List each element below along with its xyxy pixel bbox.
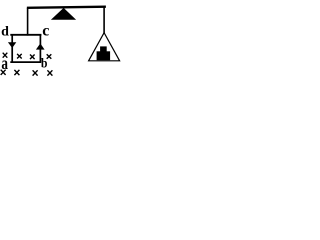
weight base block (97, 51, 111, 60)
wire: left drop from beam to bracket (27, 8, 29, 36)
ground mark x1 (3, 53, 8, 58)
svg-text:c: c (42, 23, 49, 40)
arrowhead pointing up on right vertical (36, 43, 45, 49)
fulcrum (filled triangle under beam) (51, 8, 76, 20)
wire: top bracket horizontal (10, 34, 41, 36)
wire: right bracket vertical (39, 34, 41, 63)
ground mark x5 (1, 70, 6, 75)
arrowhead pointing down on left vertical (8, 42, 16, 48)
ground mark x2 (17, 54, 22, 59)
wire: right drop from beam to support apex (103, 7, 105, 34)
ground mark x4 (47, 54, 52, 59)
support triangle outline (right) (89, 33, 120, 61)
beam (lever bar) (27, 7, 106, 8)
svg-text:d: d (1, 25, 9, 40)
ground mark x6 (14, 70, 19, 75)
ground mark x7 (33, 70, 38, 75)
ground mark x8 (47, 70, 52, 75)
ground mark x3 (30, 55, 35, 60)
wire: left bracket vertical (11, 34, 13, 63)
weight top knob (100, 46, 107, 52)
wire: bottom bracket horizontal (10, 61, 41, 63)
